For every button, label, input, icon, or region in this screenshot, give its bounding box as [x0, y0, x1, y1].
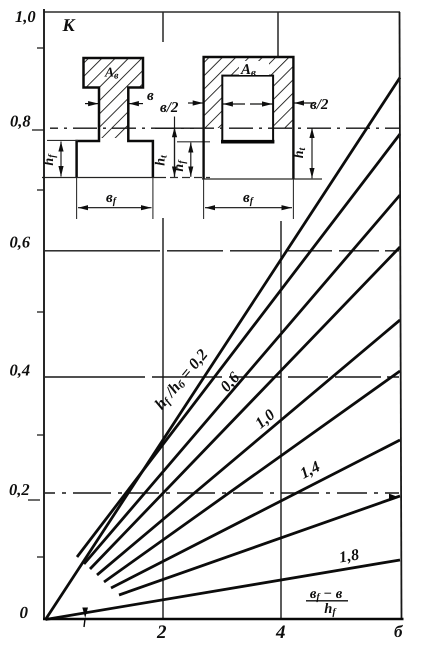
svg-text:2: 2	[156, 622, 167, 643]
svg-text:0,8: 0,8	[10, 112, 31, 131]
svg-text:4: 4	[275, 622, 286, 643]
svg-text:1,8: 1,8	[338, 546, 361, 566]
svg-text:в/2: в/2	[160, 100, 179, 116]
svg-text:0,4: 0,4	[10, 361, 31, 380]
svg-text:0,6: 0,6	[10, 233, 31, 252]
svg-text:в: в	[147, 88, 154, 104]
svg-text:в/2: в/2	[310, 97, 329, 113]
svg-text:0,2: 0,2	[9, 480, 30, 499]
svg-text:К: К	[62, 15, 77, 35]
svg-text:0: 0	[20, 603, 29, 622]
svg-text:1,0: 1,0	[15, 7, 36, 26]
